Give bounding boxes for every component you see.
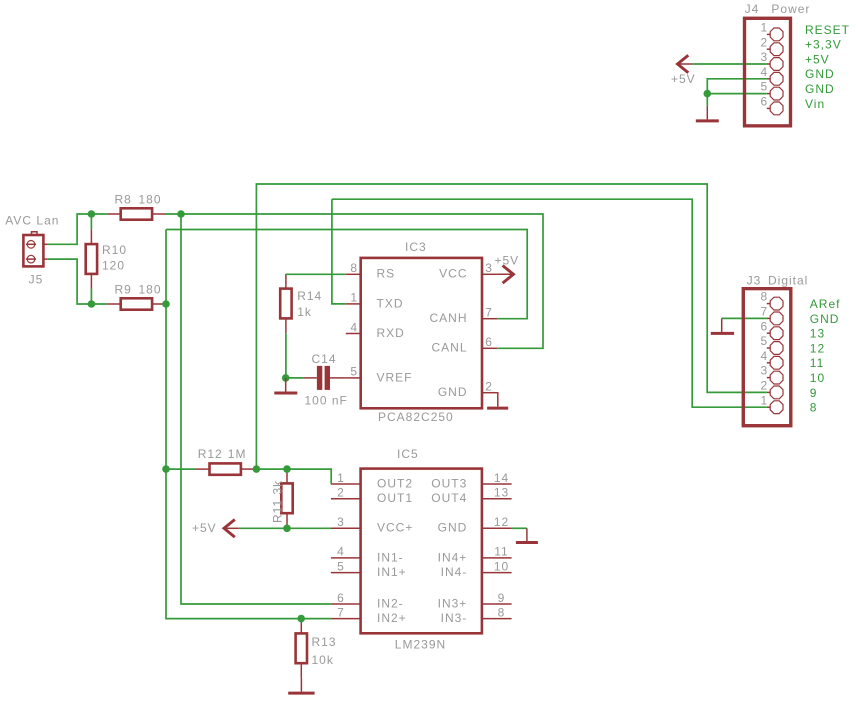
svg-text:GND: GND — [805, 67, 835, 81]
svg-text:100 nF: 100 nF — [305, 394, 348, 408]
svg-text:+5V: +5V — [805, 52, 830, 66]
J5 polarity tab — [32, 232, 38, 235]
wire J3 pin 7 to GND — [722, 317, 767, 319]
IC3 pin 1 stub — [346, 303, 361, 305]
J3 pin 5 — [767, 342, 783, 355]
IC5 pin 3 stub — [331, 527, 361, 529]
svg-text:12: 12 — [494, 515, 509, 529]
svg-text:VREF: VREF — [377, 370, 413, 384]
svg-text:RXD: RXD — [377, 326, 405, 340]
wire net 8 drop to IC3 TXD — [332, 199, 346, 304]
wire +5V to IC5 VCC+ — [239, 527, 331, 529]
IC3 pin 4 stub — [346, 333, 361, 335]
svg-text:2: 2 — [337, 486, 345, 500]
IC5 pin 12 stub — [482, 527, 512, 529]
IC5 pin 10 stub — [482, 572, 512, 574]
junction R9 right / R10 bottom — [88, 300, 96, 308]
J3 pin 8 — [767, 297, 783, 310]
ground at R13 — [288, 678, 314, 693]
svg-text:J4: J4 — [745, 2, 760, 16]
wire J5 pin 2 to R9 — [48, 259, 107, 304]
svg-text:10: 10 — [810, 371, 825, 385]
wire +5V to J4 pin 3 — [692, 63, 767, 65]
svg-text:11: 11 — [494, 545, 508, 559]
J4 pin 2 — [767, 43, 783, 56]
svg-text:3: 3 — [760, 364, 768, 378]
resistor R10 — [86, 229, 97, 288]
J5 pin 2 — [26, 255, 48, 263]
svg-text:Digital: Digital — [768, 274, 808, 288]
IC3 pin 6 stub — [482, 347, 497, 349]
J4 pin 6 — [767, 102, 783, 115]
wire R12 right to IC5 OUT2 — [255, 469, 332, 484]
ground at IC3 pin 2 — [487, 393, 508, 408]
wire GND junction down — [706, 94, 708, 106]
svg-text:2: 2 — [760, 35, 768, 49]
J3 pin 3 — [767, 371, 783, 384]
svg-text:8: 8 — [498, 605, 506, 619]
J4 pin 4 — [767, 72, 783, 85]
svg-text:5: 5 — [760, 80, 768, 94]
svg-text:RS: RS — [377, 267, 396, 281]
resistor R14 — [280, 274, 291, 333]
junction R11 top — [283, 465, 291, 473]
svg-text:GND: GND — [438, 521, 468, 535]
svg-text:1: 1 — [760, 393, 768, 407]
svg-text:9: 9 — [810, 386, 818, 400]
junction J4 GND — [704, 90, 712, 98]
IC5 pin 9 stub — [482, 603, 512, 605]
J4 pin 3 — [767, 58, 783, 71]
svg-text:3: 3 — [337, 515, 345, 529]
J3 pin 1 — [767, 401, 783, 414]
svg-text:5: 5 — [350, 365, 358, 379]
svg-text:Power: Power — [771, 2, 810, 16]
svg-text:AVC Lan: AVC Lan — [5, 214, 59, 228]
svg-text:IN2-: IN2- — [377, 596, 404, 610]
resistor R12 — [196, 463, 255, 474]
svg-text:+5V: +5V — [495, 254, 520, 268]
svg-text:IN4-: IN4- — [441, 565, 468, 579]
svg-text:+5V: +5V — [671, 72, 696, 86]
J3 pin 2 — [767, 386, 783, 399]
junction R13 top / IN2+ — [297, 615, 305, 623]
svg-text:TXD: TXD — [377, 296, 404, 310]
IC5 pin 7 stub — [331, 618, 361, 620]
connector J3 Digital — [743, 289, 791, 426]
svg-text:IC5: IC5 — [397, 447, 419, 461]
+5V supply arrow at J4 — [678, 55, 693, 73]
wire J5 pin 1 to R8 — [48, 214, 107, 244]
svg-text:9: 9 — [498, 591, 506, 605]
svg-text:OUT4: OUT4 — [431, 491, 467, 505]
svg-text:GND: GND — [805, 82, 835, 96]
svg-text:C14: C14 — [312, 352, 337, 366]
svg-text:OUT3: OUT3 — [431, 476, 467, 490]
svg-text:8: 8 — [810, 401, 818, 415]
svg-text:10k: 10k — [312, 653, 334, 667]
ground at J4 — [696, 106, 719, 121]
wire J4 pin 5 to GND junction — [707, 93, 767, 95]
connector J3 outline (over wires) — [743, 289, 791, 426]
wire R8 node down to IC5 IN2- — [181, 214, 331, 604]
svg-text:IC3: IC3 — [405, 240, 427, 254]
svg-text:R14: R14 — [297, 289, 322, 303]
svg-text:IN3-: IN3- — [441, 611, 468, 625]
IC5 pin 14 stub — [482, 483, 512, 485]
svg-text:R13: R13 — [312, 635, 337, 649]
svg-text:8: 8 — [350, 261, 358, 275]
svg-text:R12: R12 — [198, 447, 223, 461]
junction R11 bottom / +5V — [283, 525, 291, 533]
svg-text:IN1-: IN1- — [377, 550, 404, 564]
svg-text:Vin: Vin — [805, 97, 825, 111]
svg-text:12: 12 — [810, 341, 825, 355]
svg-text:IN2+: IN2+ — [377, 611, 407, 625]
wire left bus down to IC5 IN2+ — [166, 230, 331, 619]
svg-text:OUT1: OUT1 — [377, 491, 413, 505]
svg-text:6: 6 — [337, 591, 345, 605]
svg-text:10: 10 — [494, 559, 509, 573]
IC5 pin 5 stub — [331, 572, 361, 574]
ground at IC5 pin 12 — [516, 528, 538, 542]
junction net 9 / R12 right — [253, 465, 261, 473]
svg-text:1k: 1k — [297, 305, 312, 319]
junction R12 left / bus — [162, 465, 170, 473]
svg-text:1: 1 — [337, 471, 345, 485]
svg-text:+5V: +5V — [192, 521, 217, 535]
svg-text:+3,3V: +3,3V — [805, 38, 842, 52]
wire J4 pin 4 to GND junction — [707, 79, 767, 94]
wire IC3 RS to R14 — [286, 273, 346, 275]
svg-text:CANH: CANH — [429, 311, 467, 325]
+5V supply arrow at IC3 VCC — [497, 266, 513, 284]
svg-text:3: 3 — [760, 50, 768, 64]
svg-text:2: 2 — [760, 379, 768, 393]
svg-text:3: 3 — [485, 261, 493, 275]
svg-text:8: 8 — [760, 290, 768, 304]
svg-text:4: 4 — [760, 65, 768, 79]
junction R9 / left bus — [162, 300, 170, 308]
ground at J3 pin 7 — [711, 318, 734, 333]
svg-text:1: 1 — [350, 291, 358, 305]
svg-text:VCC+: VCC+ — [377, 521, 413, 535]
J3 pin 4 — [767, 356, 783, 369]
wire IC5 GND pin 12 — [512, 527, 527, 529]
IC5 pin 8 stub — [482, 618, 512, 620]
IC5 pin 11 stub — [482, 557, 512, 559]
svg-text:2: 2 — [485, 380, 493, 394]
svg-text:1: 1 — [760, 21, 768, 35]
IC5 pin 1 stub — [331, 483, 361, 485]
svg-text:180: 180 — [139, 193, 162, 207]
IC3 pin 2 stub — [482, 392, 497, 394]
resistor R11 — [281, 469, 292, 528]
wire CANH link (net N$1) — [166, 230, 527, 319]
capacitor C14 — [303, 366, 346, 390]
wire net 8 to J3 pin 8 — [332, 199, 767, 407]
J4 pin 5 — [767, 87, 783, 100]
+5V supply arrow at IC5 VCC+ — [224, 520, 239, 538]
svg-text:7: 7 — [760, 305, 768, 319]
wire R10 bottom to R9 node — [90, 289, 92, 304]
svg-text:13: 13 — [810, 327, 825, 341]
IC3 pin 7 stub — [482, 318, 497, 320]
junction R8 right node — [177, 210, 185, 218]
svg-text:4: 4 — [760, 349, 768, 363]
svg-text:R11 3k: R11 3k — [271, 480, 285, 523]
resistor R9 — [107, 298, 166, 309]
connector J5 AVC Lan — [23, 235, 43, 266]
IC5 pin 6 stub — [331, 603, 361, 605]
J5 pin 1 — [26, 241, 48, 249]
svg-text:IN3+: IN3+ — [438, 596, 468, 610]
wire R12 left to bus — [166, 468, 196, 470]
connector J4 Power — [745, 18, 791, 126]
svg-text:GND: GND — [438, 385, 468, 399]
IC3 pin 5 stub — [346, 377, 361, 379]
svg-text:6: 6 — [485, 335, 493, 349]
svg-text:R8: R8 — [115, 193, 132, 207]
IC3 pin 8 stub — [346, 273, 361, 275]
svg-text:13: 13 — [494, 486, 509, 500]
svg-text:RESET: RESET — [805, 23, 850, 37]
svg-text:5: 5 — [760, 334, 768, 348]
svg-text:R9: R9 — [115, 283, 132, 297]
wire R8 right to CANL (net N$2) — [166, 214, 543, 348]
svg-text:7: 7 — [337, 605, 345, 619]
svg-text:OUT2: OUT2 — [377, 476, 413, 490]
resistor R8 — [107, 208, 166, 219]
svg-text:1M: 1M — [228, 447, 247, 461]
svg-text:CANL: CANL — [431, 341, 467, 355]
IC5 pin 4 stub — [331, 557, 361, 559]
comparator IC5 body (LM239N) — [361, 469, 482, 634]
op-amp comparator IC3 body (PCA82C250) — [361, 258, 482, 408]
svg-text:6: 6 — [760, 95, 768, 109]
junction R14 / C14 / GND — [282, 374, 290, 382]
svg-text:4: 4 — [337, 545, 345, 559]
svg-text:6: 6 — [760, 319, 768, 333]
wire net 9 OUT2 to J3 pin 9 — [256, 184, 766, 469]
J4 pin 1 — [767, 28, 783, 41]
connector J4 outline (over wires) — [745, 18, 791, 126]
svg-text:GND: GND — [810, 312, 840, 326]
J3 pin 7 — [767, 312, 783, 325]
wire R14 bottom to C14 node — [285, 333, 287, 378]
svg-text:7: 7 — [485, 306, 493, 320]
svg-text:J5: J5 — [29, 273, 44, 287]
IC5 pin 13 stub — [482, 498, 512, 500]
svg-text:LM239N: LM239N — [395, 638, 446, 652]
svg-text:PCA82C250: PCA82C250 — [378, 410, 454, 424]
wire C14 node to capacitor — [286, 377, 304, 379]
svg-text:VCC: VCC — [439, 267, 467, 281]
IC5 pin 2 stub — [331, 498, 361, 500]
svg-text:IN4+: IN4+ — [438, 550, 468, 564]
svg-text:180: 180 — [139, 283, 162, 297]
svg-text:R10: R10 — [102, 243, 127, 257]
svg-text:J3: J3 — [747, 274, 762, 288]
svg-text:IN1+: IN1+ — [377, 565, 407, 579]
resistor R13 — [296, 619, 307, 678]
svg-text:14: 14 — [494, 471, 509, 485]
svg-text:ARef: ARef — [810, 297, 841, 311]
svg-text:4: 4 — [350, 320, 358, 334]
J3 pin 6 — [767, 327, 783, 340]
svg-text:11: 11 — [810, 356, 824, 370]
junction R8 left / R10 top — [88, 210, 96, 218]
wire node R8/R10 top — [90, 214, 92, 229]
svg-text:120: 120 — [102, 258, 125, 272]
IC3 pin 3 stub — [482, 273, 497, 275]
ground at C14 — [274, 378, 297, 393]
svg-text:5: 5 — [337, 559, 345, 573]
